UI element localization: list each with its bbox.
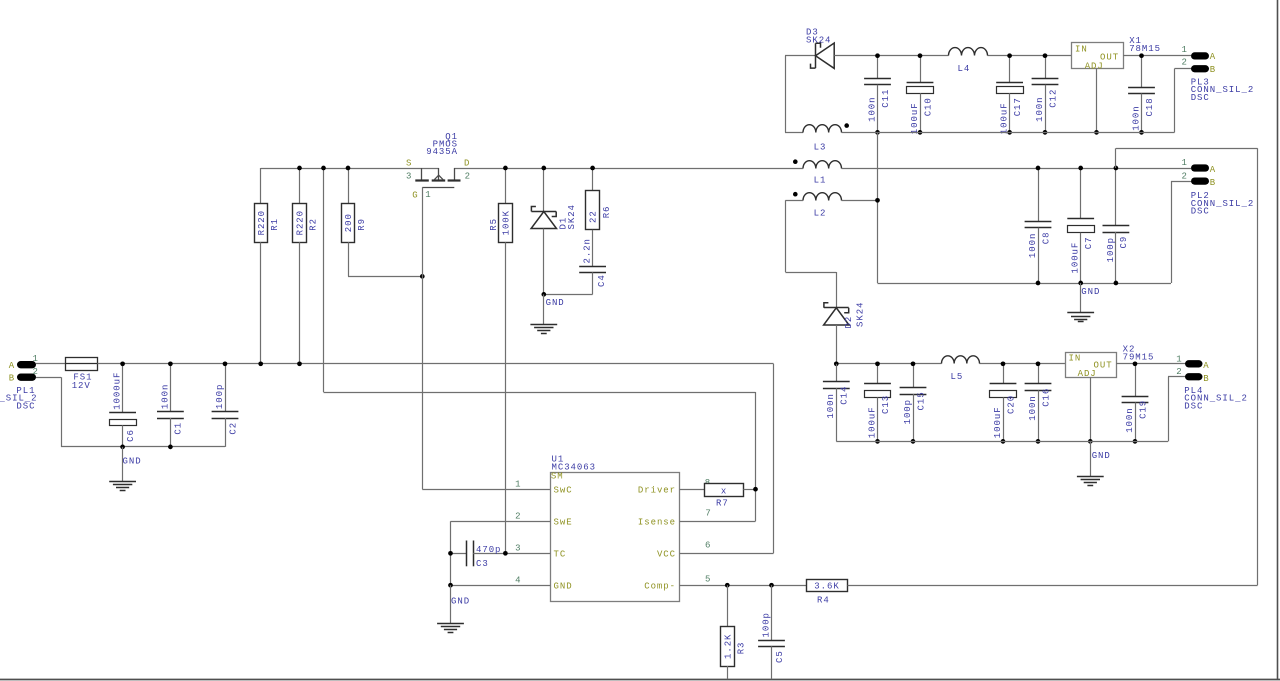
wire: X1 ADJ to rail (1096, 69, 1098, 133)
svg-text:470p: 470p (476, 545, 501, 555)
wire: L2 left to D2 (785, 200, 836, 307)
capacitor C4 2.2n (579, 238, 607, 294)
inductor L3 (785, 125, 842, 153)
svg-text:5: 5 (705, 575, 711, 585)
svg-text:B: B (9, 373, 15, 383)
svg-text:100n: 100n (1125, 407, 1135, 432)
junction dots C20 (1001, 361, 1006, 366)
PL1 labels (0, 386, 38, 411)
svg-text:C10: C10 (923, 97, 933, 116)
svg-text:1.2K: 1.2K (723, 634, 733, 659)
svg-text:SM: SM (551, 471, 564, 481)
svg-text:12V: 12V (72, 381, 91, 391)
ground U1 (437, 585, 470, 632)
svg-text:GND: GND (554, 582, 573, 592)
junction dots C3/TC (448, 551, 453, 556)
svg-text:9435A: 9435A (426, 147, 458, 157)
connector PL2 pin 1 (1182, 158, 1217, 175)
junction dots C12 (1043, 53, 1048, 58)
svg-text:DSC: DSC (1184, 401, 1203, 411)
svg-text:SK24: SK24 (567, 204, 577, 229)
svg-text:R220: R220 (257, 210, 267, 235)
svg-text:C2: C2 (228, 422, 238, 435)
junction dots C8 (1036, 166, 1041, 171)
connector PL3 pin 1 (1182, 45, 1217, 62)
ground bottom section (1077, 441, 1111, 485)
svg-text:R3: R3 (737, 642, 747, 655)
svg-text:1: 1 (32, 354, 38, 364)
svg-text:DSC: DSC (16, 401, 35, 411)
svg-text:1: 1 (1176, 354, 1182, 364)
svg-text:R2: R2 (309, 218, 319, 231)
svg-text:L5: L5 (951, 372, 964, 382)
capacitor C7 100uF (1067, 168, 1094, 283)
wire: top section ground rail (842, 132, 1175, 134)
svg-text:100p: 100p (761, 612, 771, 637)
capacitor C6 1000uF (109, 364, 136, 447)
svg-text:100uF: 100uF (1071, 242, 1081, 274)
inductor L2 (803, 193, 842, 219)
svg-text:3.6K: 3.6K (814, 582, 839, 592)
svg-text:L1: L1 (814, 176, 827, 186)
svg-text:GND: GND (546, 298, 565, 308)
resistor R7 (705, 484, 744, 509)
svg-text:C18: C18 (1145, 97, 1155, 116)
svg-text:C16: C16 (1041, 388, 1051, 407)
wire: feedback riser to comp line (1116, 148, 1258, 585)
junction dot D2/C14 (834, 361, 839, 366)
capacitor C14 100n (823, 364, 850, 442)
junction dots C9 (1114, 166, 1119, 171)
svg-text:R220: R220 (296, 210, 306, 235)
wire: SwE pin to gnd riser (451, 521, 551, 585)
resistor R5 100K (489, 168, 512, 553)
svg-text:C8: C8 (1041, 231, 1051, 244)
svg-text:Isense: Isense (638, 517, 676, 527)
IC U1 MC34063 (515, 455, 712, 602)
ground middle section (1067, 283, 1100, 322)
wire: D3 cathode to left riser (785, 56, 816, 133)
junction dot L2/riser (875, 198, 880, 203)
junction dot X2 ADJ (1088, 439, 1093, 444)
junction dots C17 (1007, 53, 1012, 58)
svg-text:C1: C1 (174, 422, 184, 435)
junction dots C18 (1139, 53, 1144, 58)
svg-text:79M15: 79M15 (1123, 352, 1155, 362)
svg-text:6: 6 (705, 540, 711, 550)
svg-text:100uF: 100uF (1000, 102, 1010, 134)
svg-text:100n: 100n (867, 96, 877, 121)
svg-text:C19: C19 (1138, 400, 1148, 419)
wire: X2 ADJ to gnd rail (1090, 377, 1092, 441)
regulator X1 78M15 (1072, 36, 1161, 71)
PL2 labels (1191, 191, 1255, 216)
resistor R4 3.6K (807, 580, 848, 606)
svg-text:ADJ: ADJ (1085, 61, 1104, 71)
svg-text:A: A (1210, 165, 1216, 175)
wire: X1 OUT to PL3 pin1 (1123, 55, 1191, 57)
svg-text:A: A (1203, 361, 1209, 371)
diode D1 SK24 (531, 168, 577, 230)
svg-text:R9: R9 (357, 218, 367, 231)
capacitor C2 100p (212, 364, 239, 447)
wire: bottom gnd rail (836, 441, 1168, 443)
svg-text:B: B (1203, 374, 1209, 384)
svg-text:DSC: DSC (1191, 207, 1210, 217)
junction dot gnd pin (448, 583, 453, 588)
wire: top 15V rail D3 to X1 IN (834, 55, 1071, 57)
junction dots C19 (1133, 361, 1138, 366)
svg-text:100n: 100n (1028, 233, 1038, 258)
svg-text:R5: R5 (489, 218, 499, 231)
svg-text:C20: C20 (1006, 395, 1016, 414)
svg-text:IN: IN (1069, 353, 1082, 363)
svg-text:x: x (721, 486, 727, 496)
svg-text:C5: C5 (775, 650, 785, 663)
wire: drain side rail (454, 168, 803, 170)
PL3 labels (1191, 78, 1255, 103)
svg-text:1: 1 (515, 480, 521, 490)
L2 phase dot (793, 192, 798, 197)
svg-text:100p: 100p (1106, 237, 1116, 262)
wire: R4 to feedback riser (848, 585, 1258, 587)
wire: PL2 pin2 drop (1171, 181, 1191, 283)
svg-text:100n: 100n (160, 384, 170, 409)
junction dots C7 (1078, 166, 1083, 171)
capacitor C16 100n (1025, 364, 1052, 442)
connector PL2 pin 2 (1182, 172, 1217, 189)
capacitor C3 470p (451, 541, 551, 570)
svg-text:L4: L4 (958, 64, 971, 74)
junction dot R6 top (590, 166, 595, 171)
capacitor C1 100n (157, 364, 184, 447)
svg-text:100n: 100n (1131, 105, 1141, 130)
L3 phase dot (844, 123, 849, 128)
svg-text:ADJ: ADJ (1078, 369, 1097, 379)
wire: Isense pin (680, 521, 756, 523)
junction dot gnd node (541, 292, 546, 297)
frame right edge (1277, 0, 1279, 679)
capacitor C13 100uF (864, 364, 891, 442)
junction dot driver loop (753, 487, 758, 492)
junction dot R5 top (503, 166, 508, 171)
capacitor C20 100uF (990, 364, 1017, 442)
svg-text:IN: IN (1075, 45, 1088, 55)
svg-text:2: 2 (1182, 58, 1188, 68)
capacitor C8 100n (1025, 168, 1052, 283)
inductor L4 (949, 48, 988, 75)
svg-text:R7: R7 (716, 498, 729, 508)
capacitor C11 100n (864, 56, 891, 133)
svg-text:100n: 100n (1028, 395, 1038, 420)
svg-text:S: S (406, 159, 412, 169)
svg-text:A: A (1210, 52, 1216, 62)
capacitor C10 100uF (907, 56, 934, 135)
fuse FS1 12V (65, 358, 97, 392)
svg-text:2: 2 (32, 367, 38, 377)
wire: D1 anode to gnd node (544, 229, 593, 295)
svg-text:SK24: SK24 (856, 302, 866, 327)
junction dots C15 (911, 361, 916, 366)
ground D1 (530, 294, 564, 333)
wire: PL1 pin1 to fuse (36, 363, 65, 365)
svg-text:100n: 100n (1035, 96, 1045, 121)
svg-text:C14: C14 (840, 386, 850, 405)
svg-text:3: 3 (406, 171, 412, 181)
svg-text:3: 3 (515, 544, 521, 554)
ground left section (109, 447, 141, 491)
svg-text:100p: 100p (903, 399, 913, 424)
capacitor C18 100n (1128, 56, 1155, 133)
capacitor C17 100uF (996, 56, 1023, 135)
L1 phase dot (793, 159, 798, 164)
svg-text:Driver: Driver (638, 485, 676, 495)
svg-text:D: D (464, 159, 470, 169)
junction dots C13 (875, 361, 880, 366)
wire: PL4 pin2 drop (1168, 377, 1185, 442)
connector PL1 pin 1 (9, 354, 39, 371)
svg-text:100uF: 100uF (867, 406, 877, 438)
svg-text:200: 200 (344, 213, 354, 232)
wire: Comp- line to R4 (680, 585, 807, 587)
capacitor C12 100n (1032, 56, 1059, 133)
svg-text:C11: C11 (881, 89, 891, 108)
capacitor C5 100p (758, 585, 785, 679)
capacitor C15 100p (900, 364, 927, 442)
svg-text:C9: C9 (1119, 236, 1129, 249)
svg-text:2: 2 (1176, 367, 1182, 377)
svg-text:4: 4 (515, 576, 521, 586)
resistor R6 22 (586, 168, 613, 266)
svg-text:SwC: SwC (554, 485, 573, 495)
svg-text:2: 2 (1182, 172, 1188, 182)
junction dots C11 (875, 53, 880, 58)
resistor R9 200 (342, 168, 423, 277)
wire: PL1 pin2 to gnd rail (36, 377, 225, 447)
capacitor C9 100p (1103, 168, 1130, 283)
resistor R1 220 (255, 168, 280, 364)
svg-text:B: B (1210, 178, 1216, 188)
wire: Driver to R7 (680, 489, 705, 491)
connector PL4 pin 1 (1176, 354, 1209, 371)
wire: driver loop riser (324, 168, 756, 521)
wire: R7 to loop (743, 489, 755, 491)
svg-text:GND: GND (1081, 287, 1100, 297)
connector PL4 pin 2 (1176, 367, 1209, 384)
svg-text:R1: R1 (270, 218, 280, 231)
regulator X2 79M15 (1066, 345, 1155, 380)
wire: U1 GND pin (451, 585, 551, 587)
svg-text:SK24: SK24 (806, 35, 831, 45)
junction dot loop top (321, 166, 326, 171)
wire: L2 right to riser (842, 200, 878, 202)
svg-text:TC: TC (554, 550, 567, 560)
junction dots R9 (346, 166, 351, 171)
junction dot D1 top (541, 166, 546, 171)
svg-text:C15: C15 (916, 391, 926, 410)
junction dots C1 (168, 361, 173, 366)
junction dots R2 (297, 166, 302, 171)
svg-text:C7: C7 (1084, 236, 1094, 249)
svg-text:2.2n: 2.2n (583, 238, 593, 263)
wire: source side rail (261, 168, 439, 170)
diode D3 SK24 (806, 27, 834, 68)
junction dot X1 ADJ (1094, 130, 1099, 135)
svg-text:Comp-: Comp- (644, 582, 676, 592)
svg-text:C4: C4 (597, 274, 607, 287)
svg-text:GND: GND (451, 597, 470, 607)
svg-text:100p: 100p (215, 384, 225, 409)
connector PL3 pin 2 (1182, 58, 1217, 75)
svg-text:C6: C6 (126, 429, 136, 442)
wire: PL3 pin2 riser (1175, 69, 1192, 133)
svg-text:C17: C17 (1013, 97, 1023, 116)
svg-text:L3: L3 (814, 143, 827, 153)
capacitor C19 100n (1122, 364, 1149, 442)
svg-text:1: 1 (1182, 45, 1188, 55)
wire: riser C11 node down to middle gnd rail (878, 132, 1172, 283)
PL4 labels (1184, 386, 1248, 411)
svg-text:22: 22 (589, 210, 599, 223)
junction dot R1 bottom (258, 361, 263, 366)
connector PL1 pin 2 (9, 367, 39, 383)
svg-text:GND: GND (123, 457, 142, 467)
svg-text:G: G (412, 190, 418, 200)
svg-text:1000uF: 1000uF (113, 372, 123, 410)
svg-text:GND: GND (1092, 451, 1111, 461)
resistor R2 220 (293, 168, 319, 364)
svg-text:R6: R6 (602, 206, 612, 219)
inductor L5 (942, 356, 980, 382)
svg-text:SwE: SwE (554, 517, 573, 527)
junction dots C6 (120, 361, 125, 366)
svg-text:A: A (9, 361, 15, 371)
junction dots comp (725, 583, 730, 588)
junction dots C10 (918, 53, 923, 58)
inductor L1 (803, 161, 842, 186)
svg-text:C12: C12 (1048, 89, 1058, 108)
diode D2 SK24 (824, 302, 866, 329)
wire: L1 to PL2 pin1 (842, 168, 1192, 170)
wire: main 12V rail (98, 363, 774, 365)
svg-text:100K: 100K (502, 210, 512, 235)
svg-text:1: 1 (425, 190, 431, 200)
svg-text:VCC: VCC (657, 550, 676, 560)
svg-text:R4: R4 (817, 595, 830, 605)
resistor R3 1.2K (721, 585, 747, 679)
svg-text:L2: L2 (814, 209, 827, 219)
svg-text:B: B (1210, 65, 1216, 75)
wire: -15V rail (836, 363, 1065, 365)
frame bottom edge (0, 680, 1280, 681)
junction dot C2 top (223, 361, 228, 366)
svg-text:7: 7 (705, 508, 711, 518)
svg-text:100uF: 100uF (993, 406, 1003, 438)
wire: VCC riser (680, 364, 774, 554)
junction dots C16 (1036, 361, 1041, 366)
svg-text:C13: C13 (881, 395, 891, 414)
svg-text:2: 2 (465, 171, 471, 181)
wire: X2 OUT to PL4 (1116, 363, 1185, 365)
transistor Q1 PMOS 9435A (406, 132, 471, 201)
svg-text:1: 1 (1182, 158, 1188, 168)
svg-text:D2: D2 (844, 316, 854, 329)
svg-text:78M15: 78M15 (1129, 44, 1161, 54)
svg-text:100n: 100n (826, 393, 836, 418)
wire: D2 anode to rail (836, 325, 838, 364)
svg-text:C3: C3 (476, 559, 489, 569)
wire: gate line down to SwC (422, 187, 550, 489)
svg-text:100uF: 100uF (910, 102, 920, 134)
svg-text:2: 2 (515, 512, 521, 522)
svg-text:DSC: DSC (1191, 93, 1210, 103)
